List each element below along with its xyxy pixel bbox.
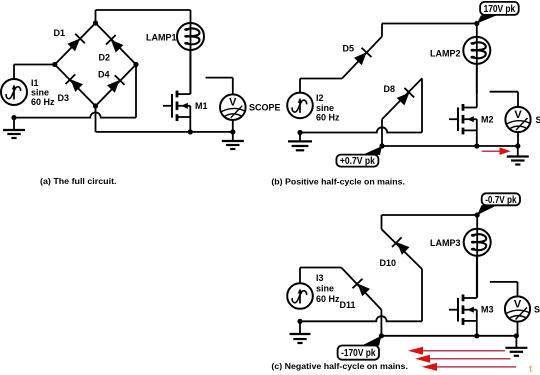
callout pointer -0.7V (477, 205, 497, 215)
diode D5 (354, 52, 367, 65)
red arrow 2 (430, 358, 511, 360)
rail wire I1 to bridge right node with hop (14, 112, 136, 117)
ground under I1 (13, 118, 15, 130)
svg-text:sine: sine (316, 284, 334, 294)
node dot bridge bottom (93, 103, 98, 108)
mosfet M2 (449, 118, 458, 120)
svg-text:D10: D10 (380, 258, 397, 268)
junction dot meter bottom b (515, 143, 520, 148)
node dot bridge top (93, 20, 98, 25)
wire D8 to +0.7V node (381, 119, 383, 146)
svg-text:60 Hz: 60 Hz (316, 113, 340, 123)
svg-text:(b) Positive half-cycle on mai: (b) Positive half-cycle on mains. (271, 176, 405, 186)
wire I1 top to bridge left node (13, 65, 15, 80)
svg-text:-170V pk: -170V pk (341, 348, 376, 359)
svg-text:D3: D3 (58, 93, 70, 103)
svg-text:S: S (534, 305, 540, 315)
svg-text:sine: sine (31, 88, 49, 98)
rail wire -170V node to ground (381, 335, 516, 337)
svg-text:I2: I2 (316, 93, 324, 103)
red arrow 3 (437, 366, 516, 368)
callout pointer 170V (477, 15, 497, 23)
junction dot node -0.7V (475, 212, 480, 217)
svg-text:I1: I1 (31, 78, 39, 88)
current source I2 (287, 93, 313, 119)
rail wire +0.7V node to ground (382, 145, 518, 147)
svg-text:D8: D8 (384, 84, 396, 94)
rail wire I2 to D8 corner with hop (300, 127, 422, 132)
wire bridge bottom to lower rail (95, 106, 97, 132)
voltmeter S b (505, 107, 530, 132)
diode D11 (358, 284, 371, 297)
ground under meter b (517, 146, 519, 157)
mosfet M3 (449, 309, 458, 311)
value box -170V pk (338, 346, 379, 360)
current source I3 (287, 283, 313, 309)
lamp LAMP2 (463, 37, 490, 64)
callout pointer +0.7V (363, 146, 383, 155)
junction dot M3 source (474, 333, 479, 338)
value box 170V pk (480, 2, 519, 15)
wire D11 to -170V node (380, 310, 382, 336)
diode D2 (111, 40, 124, 53)
mosfet M1 (163, 105, 172, 107)
svg-text:-0.7V pk: -0.7V pk (485, 195, 517, 206)
meter probe stub wire b (490, 91, 518, 93)
diode D10 diagonal wire (381, 215, 383, 229)
voltmeter SCOPE (220, 94, 246, 120)
diode D11 diagonal wire (341, 268, 381, 310)
junction dot M1 source (188, 129, 193, 134)
svg-text:V: V (514, 109, 522, 121)
svg-text:D1: D1 (54, 28, 66, 38)
junction dot I2 bottom (297, 130, 302, 135)
red arrow b (482, 150, 500, 152)
svg-text:LAMP3: LAMP3 (430, 238, 461, 248)
node dot bridge left (52, 62, 57, 67)
svg-text:60 Hz: 60 Hz (31, 97, 55, 107)
red arrow 1 (423, 350, 505, 352)
diode D4 (107, 80, 120, 93)
svg-text:D11: D11 (340, 300, 356, 310)
junction dot meter bottom c (514, 333, 519, 338)
diode D8 (397, 93, 410, 106)
svg-text:I3: I3 (316, 273, 324, 283)
wire node to LAMP3 (476, 215, 478, 298)
junction dot M2 source (474, 143, 479, 148)
junction dot I3 bottom (297, 319, 302, 324)
svg-text:LAMP2: LAMP2 (430, 49, 461, 59)
svg-text:M1: M1 (195, 101, 208, 111)
callout pointer -170V (362, 336, 382, 346)
svg-text:+0.7V pk: +0.7V pk (340, 156, 375, 167)
svg-text:60 Hz: 60 Hz (316, 294, 340, 304)
svg-text:SCOPE: SCOPE (249, 103, 281, 113)
diode D3 (70, 79, 83, 92)
lamp LAMP1 (177, 23, 204, 50)
ground under I2 (299, 133, 301, 142)
junction dot I1 bottom (11, 115, 16, 120)
diode D10 (397, 242, 410, 255)
bridge edge wire top-right (96, 23, 137, 65)
value box +0.7V pk (336, 155, 378, 167)
svg-text:V: V (514, 299, 522, 311)
wire meter to rail b (517, 132, 519, 146)
svg-text:M3: M3 (481, 305, 494, 315)
wire scope to rail (232, 120, 234, 132)
ground under meter c (515, 336, 517, 348)
svg-text:170V pk: 170V pk (484, 4, 516, 15)
diode D1 (67, 39, 80, 52)
svg-text:LAMP1: LAMP1 (146, 33, 177, 43)
wire top rail to node 170V (382, 23, 477, 25)
value box -0.7V pk (482, 193, 520, 205)
junction dot node -170V (379, 333, 384, 338)
diode D8 diagonal wire (382, 78, 422, 119)
wire I2 top to D5 diagonal (299, 79, 301, 93)
wire I3 top to D11 diagonal (299, 268, 301, 284)
bridge edge wire left-top (55, 23, 96, 65)
junction dot node +0.7V (379, 143, 384, 148)
svg-text:V: V (229, 97, 237, 109)
voltmeter S c (505, 296, 530, 321)
node dot bridge right (133, 62, 138, 67)
svg-text:S: S (536, 115, 540, 125)
wire meter to rail c (517, 322, 519, 336)
wire node to LAMP2 (476, 24, 478, 95)
svg-text:M2: M2 (481, 115, 494, 125)
junction dot scope bottom (230, 129, 235, 134)
wire bridge top node to LAMP1 (95, 10, 97, 23)
svg-text:(c) Negative half-cycle on mai: (c) Negative half-cycle on mains. (271, 361, 408, 371)
junction dot node 170V (474, 21, 479, 26)
svg-text:D2: D2 (99, 53, 111, 63)
ground under scope (232, 132, 234, 141)
ground under I3 (299, 321, 301, 334)
svg-text:D5: D5 (343, 44, 355, 54)
svg-text:D4: D4 (98, 70, 110, 80)
meter probe stub wire c (490, 281, 518, 283)
bridge edge wire bottom-right (96, 65, 137, 107)
rail wire I3 to D10 corner with hop (300, 316, 422, 321)
svg-text:(a) The full circuit.: (a) The full circuit. (40, 176, 117, 186)
svg-text:sine: sine (316, 103, 334, 113)
current source I1 (1, 79, 27, 105)
wire top rail to node -0.7V (382, 214, 478, 216)
lamp LAMP3 (464, 229, 491, 256)
diode D5 diagonal wire (342, 37, 382, 79)
svg-text:t: t (529, 364, 533, 375)
bridge edge wire left-bottom (55, 65, 96, 107)
scope probe stub wire (206, 77, 233, 79)
